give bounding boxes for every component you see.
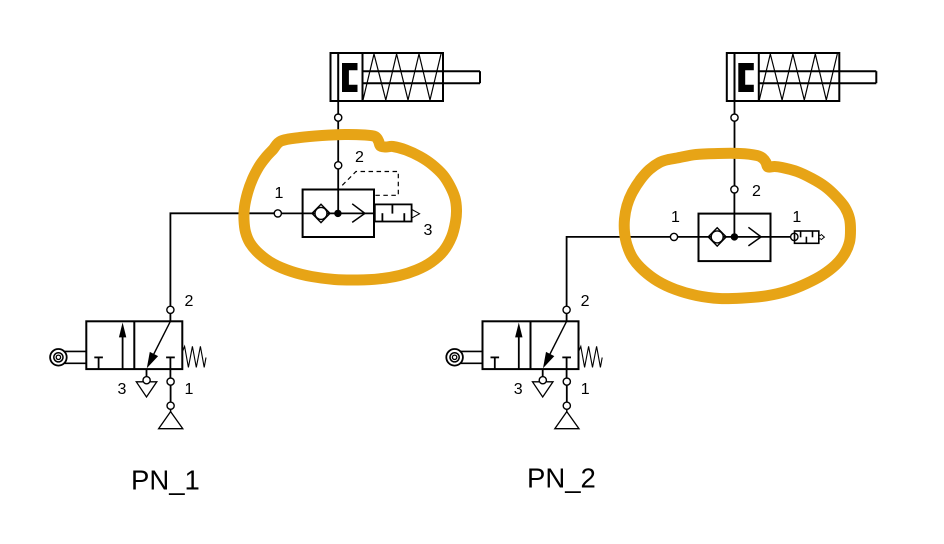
svg-text:2: 2	[184, 293, 193, 310]
cylinder A1 piston rod	[363, 71, 481, 83]
connector circle on source Z1	[167, 402, 174, 409]
svg-text:PN_2: PN_2	[527, 462, 596, 493]
silencer on valve V1 port 3	[375, 204, 412, 221]
valve V2 internal flow line	[699, 236, 771, 238]
cylinder A1 piston	[342, 63, 358, 92]
valve S2 right cell blocked port T	[562, 357, 571, 369]
cylinder A2 return spring	[759, 54, 837, 100]
connector circle on valve S1 port 1	[167, 378, 174, 385]
connector circle on source Z2	[563, 402, 570, 409]
connector circle on valve V1 port 1	[274, 210, 281, 217]
valve V2 check valve circle	[711, 231, 723, 243]
connector circle on valve S2 port 2	[563, 306, 570, 313]
valve S1 return spring	[183, 346, 206, 367]
connector circle on silencer of valve V2	[791, 233, 798, 240]
wire cylinder A1 to valve V1 port 2	[337, 121, 339, 162]
orange marker loop around valve V1	[244, 134, 457, 280]
valve S1 right cell blocked port T	[166, 357, 175, 369]
connector circle on valve S1 port 2	[167, 306, 174, 313]
valve V1 pilot dashed line	[342, 172, 398, 196]
connector circle on valve V1 port 2	[335, 162, 342, 169]
wire from valve S2 port 2 to valve V2 port 1	[567, 237, 671, 306]
valve S1 left cell blocked port T	[94, 357, 103, 369]
valve S1 left cell flow arrow	[122, 334, 124, 369]
svg-text:1: 1	[792, 209, 801, 226]
connector circle on valve V2 port 1	[670, 233, 677, 240]
cylinder A1 return spring	[363, 54, 441, 100]
wire valve S1 port 2 stub	[169, 313, 171, 321]
wire into valve V1 port 1	[281, 212, 302, 214]
valve V2 check valve diamond	[708, 228, 726, 246]
connector circle on valve S1 port 3	[143, 377, 150, 384]
svg-text:PN_1: PN_1	[131, 464, 200, 495]
valve S2 left cell blocked port T	[491, 357, 500, 369]
valve V2 junction dot	[731, 233, 738, 240]
valve S1 right cell exhaust path arrow	[149, 321, 170, 363]
valve S2 right cell exhaust path arrow	[545, 321, 566, 363]
valve S1 roller actuator	[50, 349, 86, 366]
valve V1 internal flow line	[303, 212, 375, 214]
connector circle on valve S2 port 3	[539, 377, 546, 384]
connector circle on cylinder A1 port	[335, 114, 342, 121]
source Z1 stub	[170, 409, 172, 412]
valve S2 port 3 stub	[542, 369, 544, 377]
wire valve S2 port 1 to source	[566, 385, 568, 402]
cylinder A1 body	[331, 53, 444, 101]
svg-text:1: 1	[581, 381, 590, 398]
source Z2 stub	[566, 409, 568, 412]
valve S2 return spring	[579, 346, 602, 367]
3/2-way valve S2 body	[483, 321, 579, 369]
cylinder A1 port stub	[337, 101, 339, 114]
wire into valve V2 port 1	[678, 236, 699, 238]
valve S1 exhaust triangle	[136, 382, 157, 397]
valve V1 check valve circle	[315, 207, 327, 219]
svg-text:3: 3	[424, 222, 433, 239]
wire cylinder A2 to valve V2 port 2	[734, 121, 736, 186]
wire valve S1 port 1 to source	[170, 385, 172, 402]
connector circle on valve V2 port 2	[731, 186, 738, 193]
cylinder A2 piston rod	[759, 71, 877, 83]
cylinder A2 piston	[738, 63, 754, 92]
valve S1 port 3 stub	[146, 369, 148, 377]
silencer V2 cone	[819, 234, 825, 240]
svg-text:3: 3	[514, 381, 523, 398]
valve S2 roller actuator	[446, 349, 482, 366]
wire into valve V2 port 2	[733, 193, 735, 237]
cylinder A2 body	[727, 53, 840, 101]
svg-text:1: 1	[185, 381, 194, 398]
compressed air source Z2 triangle	[555, 412, 579, 429]
valve V1 check valve diamond	[312, 204, 330, 222]
quick exhaust valve V2 body	[699, 214, 771, 262]
cylinder A2 port stub	[734, 101, 736, 114]
svg-text:1: 1	[671, 209, 680, 226]
silencer on valve V2	[795, 231, 819, 243]
valve S2 exhaust triangle	[533, 382, 554, 397]
svg-text:2: 2	[752, 183, 761, 200]
valve V1 flow chevron	[352, 204, 365, 223]
3/2-way valve S1 body	[86, 321, 182, 369]
svg-text:1: 1	[275, 185, 284, 202]
valve S1 port 1 stub	[169, 369, 171, 378]
orange marker loop around valve V2	[624, 153, 850, 298]
wire into valve V1 port 2	[337, 169, 339, 214]
connector circle on valve S2 port 1	[563, 378, 570, 385]
wire valve V2 to silencer	[771, 236, 791, 238]
quick exhaust valve V1 body	[303, 190, 374, 238]
wire from valve S1 port 2 to valve V1 port 1	[170, 213, 274, 306]
connector circle on cylinder A2 port	[731, 114, 738, 121]
svg-text:3: 3	[118, 381, 127, 398]
silencer V1 cone	[412, 210, 420, 218]
wire valve S2 port 2 stub	[566, 313, 568, 321]
svg-text:2: 2	[355, 149, 364, 166]
valve S2 port 1 stub	[566, 369, 568, 378]
valve V1 junction dot	[334, 210, 341, 217]
valve S2 left cell flow arrow	[518, 334, 520, 369]
valve V2 flow chevron	[748, 227, 761, 246]
compressed air source Z1 triangle	[159, 412, 183, 429]
svg-text:2: 2	[581, 293, 590, 310]
